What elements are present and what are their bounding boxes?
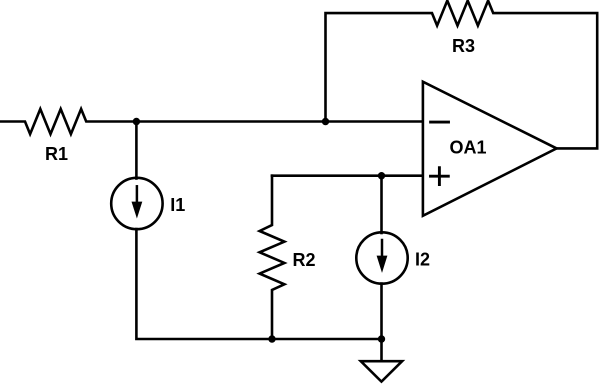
svg-text:I2: I2 (415, 250, 430, 270)
svg-text:I1: I1 (170, 195, 185, 215)
svg-text:R3: R3 (452, 36, 475, 56)
svg-text:OA1: OA1 (450, 138, 487, 158)
svg-text:R2: R2 (293, 250, 316, 270)
svg-text:R1: R1 (45, 144, 68, 164)
